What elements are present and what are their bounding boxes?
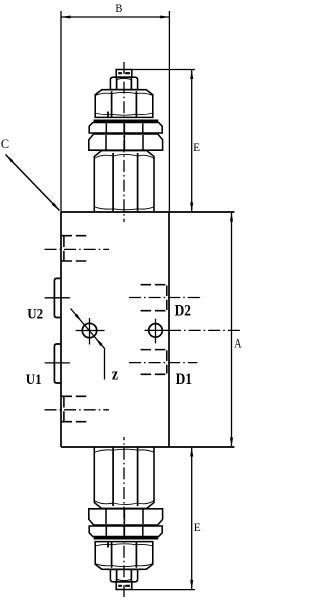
manifold body block — [61, 212, 234, 447]
dimension A arrows — [230, 212, 233, 222]
gauge port circle D — [149, 324, 163, 338]
svg-text:E: E — [193, 141, 200, 154]
hidden port bottom-left — [62, 396, 89, 421]
orifice circle Z — [82, 323, 96, 337]
dimension E bottom line — [191, 447, 193, 590]
dimension E top arrows — [190, 70, 193, 80]
port boss U2 — [54, 278, 61, 317]
leader C arrow lower — [52, 203, 61, 212]
bottom cartridge valve (mirrored) — [89, 437, 163, 597]
svg-text:z: z — [112, 366, 118, 384]
dimension B extension lines — [61, 11, 169, 212]
dimension E bottom arrows — [190, 447, 193, 457]
svg-text:D2: D2 — [175, 302, 191, 319]
port boss U1 — [54, 344, 61, 383]
leader z diagonal — [71, 309, 105, 380]
dimension E top extension line — [132, 69, 195, 71]
centerline D1 — [129, 362, 197, 364]
centerline D2 — [129, 297, 203, 299]
centerline circle D extended — [169, 329, 240, 331]
hidden port D2 — [141, 285, 169, 311]
centerline U1 — [45, 362, 70, 364]
leader z arrow lower — [94, 337, 103, 346]
top cartridge valve — [89, 62, 163, 222]
leader C arrow upper — [4, 153, 13, 162]
dimension B left arrow — [61, 15, 71, 18]
dimension B line — [61, 16, 169, 18]
dimension A line — [231, 212, 233, 447]
svg-text:U2: U2 — [27, 307, 43, 323]
dimension E top line — [191, 70, 193, 213]
leader C line — [6, 155, 60, 211]
centerline port bottom-left — [45, 409, 110, 411]
centerline port top-left — [45, 248, 110, 250]
svg-text:C: C — [1, 137, 9, 151]
dimension E bottom extension line — [132, 589, 195, 591]
centerline U2 — [45, 297, 70, 299]
svg-text:B: B — [115, 3, 122, 16]
leader z arrow upper — [75, 314, 84, 323]
crosshair circle Z — [76, 318, 105, 345]
svg-text:U1: U1 — [26, 372, 42, 388]
hidden port D1 — [141, 350, 169, 375]
svg-text:D1: D1 — [176, 371, 192, 388]
hidden port top-left — [62, 236, 89, 261]
dimension B right arrow — [160, 15, 170, 18]
crosshair circle D — [145, 319, 169, 344]
svg-text:E: E — [194, 521, 201, 534]
svg-text:A: A — [234, 336, 242, 351]
